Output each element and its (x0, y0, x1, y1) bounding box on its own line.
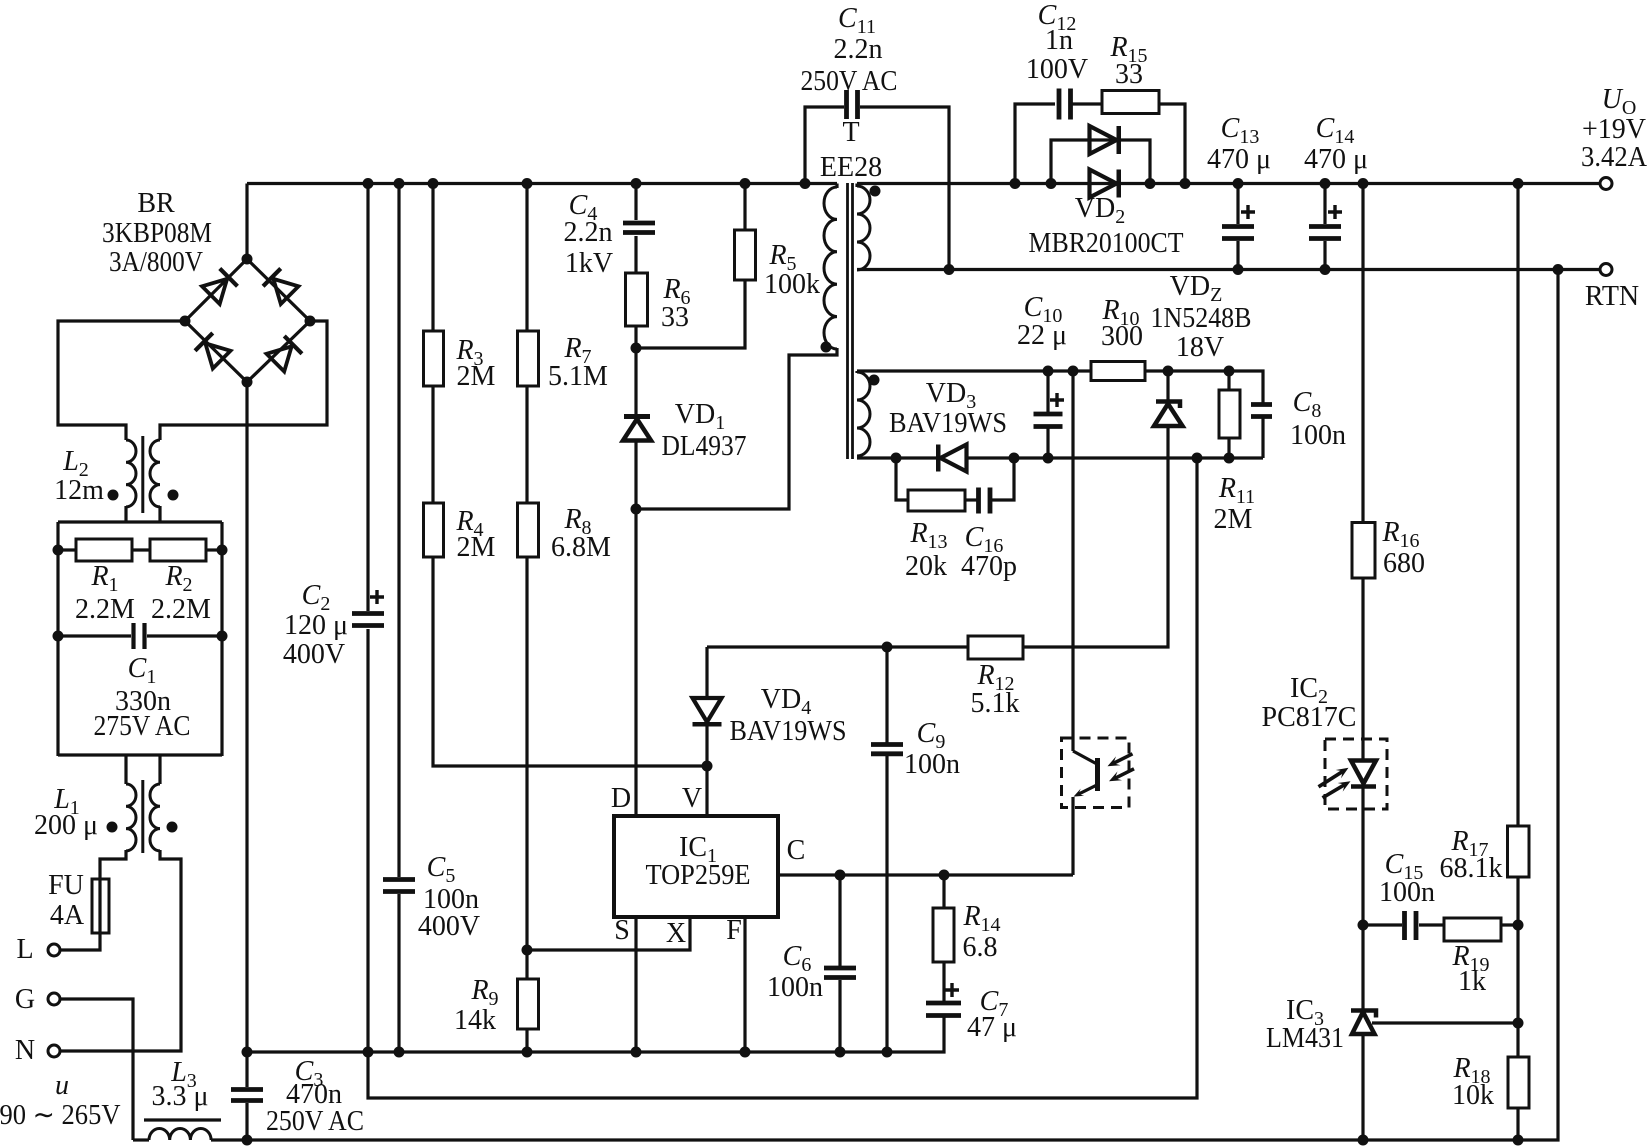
junction bias return link (1192, 453, 1203, 464)
junction ref R18 (1513, 1018, 1524, 1029)
wire C9 bottom wire (885, 755, 888, 1052)
resistor R16 (1352, 523, 1375, 579)
wire opto collector wire (1071, 371, 1074, 751)
T secondary phase dot (870, 186, 881, 197)
plus sign C7 (945, 983, 959, 997)
svg-text:L: L (16, 934, 33, 965)
wire R13C16 bypass (896, 458, 908, 500)
wire T bias top stub (855, 371, 858, 373)
wire C pin line (778, 873, 1073, 876)
svg-text:470p: 470p (961, 551, 1017, 582)
wire C2 upper wire (366, 184, 369, 612)
svg-text:2.2n: 2.2n (564, 217, 613, 248)
resistor R12 (968, 636, 1023, 659)
wire T bias winding (857, 372, 870, 456)
svg-text:275V AC: 275V AC (94, 711, 191, 742)
wire earth rail left (133, 1138, 149, 1141)
terminal RTN output (1600, 264, 1612, 276)
capacitor C6 100n (824, 968, 856, 978)
svg-text:100n: 100n (904, 749, 960, 780)
wire C3 top stub (245, 1052, 248, 1087)
svg-text:3.42A: 3.42A (1581, 142, 1648, 173)
bridge right node (305, 316, 316, 327)
junction return F pin (740, 1047, 751, 1058)
svg-text:18V: 18V (1176, 332, 1224, 363)
svg-text:12m: 12m (54, 475, 104, 506)
wire C13 bottom wire (1236, 241, 1239, 270)
wire earth rail right (211, 270, 1558, 1141)
wire EMI box top (58, 520, 222, 523)
junction out rail C14 (1320, 178, 1331, 189)
wire T core left bar (846, 183, 849, 459)
wire bridge minus down (245, 382, 248, 1052)
junction feedback R19 (1513, 920, 1524, 931)
wire C4-R6 link (634, 236, 637, 273)
wire C11 right wire (860, 107, 949, 270)
wire G terminal wire (60, 999, 133, 1140)
svg-text:EE28: EE28 (820, 152, 882, 183)
wire C10 top wire (1046, 371, 1049, 413)
bridge top node (242, 254, 253, 265)
wire opto emitter wire (1071, 797, 1074, 875)
wire zener top wire (1166, 371, 1169, 402)
L1 left phase dot (107, 822, 118, 833)
resistor R8 (518, 503, 539, 557)
svg-text:3KBP08M: 3KBP08M (102, 218, 212, 249)
transformer T EE28 (821, 183, 881, 459)
wire LM431 ref wire (1372, 1021, 1518, 1024)
junction top rail C4 (631, 178, 642, 189)
capacitor C12 1n (1059, 89, 1071, 120)
wire R5 top wire (743, 184, 746, 231)
wire bias bottom rail right (966, 456, 1263, 459)
wire C6 top wire (838, 875, 841, 966)
junction bias rail opto (1068, 366, 1079, 377)
capacitor C15 100n (1405, 911, 1417, 940)
junction out rail VD2 left (1046, 178, 1057, 189)
wire C12R15 branch left (1015, 104, 1055, 184)
junction C pin R14 (939, 870, 950, 881)
wire R7-R8 link (525, 386, 528, 503)
wire VD4 top wire (705, 647, 708, 699)
junction bias return R11 (1224, 453, 1235, 464)
junction feedback C15 (1358, 920, 1369, 931)
resistor R9 (518, 979, 539, 1029)
svg-text:100k: 100k (764, 269, 820, 300)
bridge rectifier BR 3KBP08M (180, 254, 316, 388)
resistor R14 (933, 908, 954, 962)
wire EMI box bottom (58, 753, 222, 756)
wire C12-R15 link (1071, 102, 1102, 105)
optocoupler IC2 LED (1319, 739, 1388, 809)
wire C9 top wire (885, 647, 888, 743)
svg-text:14k: 14k (454, 1005, 496, 1036)
junction top rail R3 (428, 178, 439, 189)
wire C4 top wire (634, 184, 637, 221)
svg-text:+19V: +19V (1582, 114, 1646, 145)
plus sign C2 (370, 590, 384, 604)
wire R13-C16 link (965, 498, 977, 501)
wire R4 to V-pin sense (433, 557, 707, 766)
wire R2 row wire (206, 548, 222, 551)
junction snubber node (631, 343, 642, 354)
svg-text:1N5248B: 1N5248B (1151, 303, 1252, 334)
wire C2 lower wire (366, 629, 369, 1052)
svg-text:33: 33 (1115, 59, 1143, 90)
zener diode VDZ 1N5248B (1154, 402, 1183, 427)
diode VD4 (693, 698, 722, 724)
svg-text:22 μ: 22 μ (1017, 320, 1067, 351)
wire output +19V rail (857, 182, 1600, 185)
svg-text:2M: 2M (457, 532, 496, 563)
svg-text:2M: 2M (1214, 504, 1253, 535)
wire C14 bottom wire (1323, 241, 1326, 270)
wire T secondary winding (857, 186, 870, 270)
svg-text:470 μ: 470 μ (1207, 144, 1271, 175)
svg-text:6.8M: 6.8M (551, 532, 611, 563)
wire RTN rail (857, 268, 1600, 271)
wire C3 bottom stub (245, 1103, 248, 1140)
junction out rail R15 right (1180, 178, 1191, 189)
junction out rail C13 (1233, 178, 1244, 189)
svg-text:T: T (842, 117, 859, 148)
svg-text:250V AC: 250V AC (266, 1106, 364, 1137)
wire L1 core bar (141, 780, 144, 853)
wire T secondary top stub (855, 184, 858, 188)
wire C5 upper wire (397, 184, 400, 878)
T bias phase dot (869, 375, 880, 386)
junction bias rail C10 (1043, 366, 1054, 377)
junction R2 right (217, 545, 228, 556)
capacitor C7 47u (926, 1003, 961, 1016)
svg-text:100n: 100n (1290, 420, 1346, 451)
svg-text:300: 300 (1101, 321, 1143, 352)
wire bias bottom rail (857, 456, 937, 459)
svg-text:1k: 1k (1458, 966, 1486, 997)
junction return C5 (394, 1047, 405, 1058)
capacitor C13 470u (1222, 227, 1254, 239)
svg-text:N: N (15, 1035, 35, 1066)
diode BR D2 (R to T) (263, 269, 298, 304)
common-mode choke L2 (108, 436, 179, 513)
wire primary DC+ rail (247, 182, 837, 185)
resistor R13 (908, 490, 965, 511)
svg-text:680: 680 (1383, 548, 1425, 579)
svg-text:F: F (726, 915, 742, 946)
wire C15-R19 link (1419, 923, 1445, 926)
wire R18 bottom wire (1516, 1108, 1519, 1140)
wire return-to-bias link (368, 458, 1197, 1098)
capacitor C16 470p (979, 488, 991, 514)
wire C5 lower wire (397, 894, 400, 1052)
wire L3 core bar (144, 1118, 221, 1121)
svg-text:1kV: 1kV (565, 248, 613, 279)
svg-text:4A: 4A (50, 900, 85, 931)
wire R16 top wire (1361, 184, 1364, 524)
wire L2 left winding (126, 440, 136, 507)
wire C12R15 branch right (1158, 104, 1185, 184)
junction V sense (702, 761, 713, 772)
plus sign C14 (1328, 205, 1342, 219)
junction R9 X pin (522, 945, 533, 956)
wire C11 left wire (805, 107, 844, 184)
terminal L (48, 944, 60, 956)
junction RTN C13 (1233, 264, 1244, 275)
optocoupler IC2 phototransistor (1062, 738, 1135, 808)
zener diode VD1 DL4937 (623, 417, 651, 441)
wire C8 bottom stub (1261, 418, 1264, 458)
svg-text:BAV19WS: BAV19WS (889, 408, 1007, 439)
resistor R17 (1508, 826, 1530, 877)
wire R17 top wire (1516, 184, 1519, 827)
svg-text:BR: BR (137, 188, 175, 219)
svg-text:D: D (611, 783, 631, 814)
svg-text:2.2M: 2.2M (75, 594, 135, 625)
wire C10 bottom wire (1046, 428, 1049, 458)
wire T core right bar (851, 183, 854, 459)
wire bias rail R10 to C8 (1145, 371, 1263, 404)
resistor R5 (735, 230, 756, 280)
svg-text:V: V (682, 783, 702, 814)
resistor R15 (1102, 91, 1159, 114)
junction drain node (631, 504, 642, 515)
svg-text:S: S (614, 915, 630, 946)
wire R5 bottom wire (636, 280, 745, 348)
junction return C6 (835, 1047, 846, 1058)
wire L1 left bottom to fuse (60, 850, 126, 950)
wire R1-R2 link (132, 548, 150, 551)
shunt regulator IC3 LM431 (1351, 1011, 1376, 1035)
wire bridge AC left to L2 (58, 321, 185, 440)
capacitor C9 100n (871, 745, 903, 754)
wire L1 right winding (150, 784, 160, 851)
svg-text:2.2M: 2.2M (151, 594, 211, 625)
wire bias top rail (857, 369, 1091, 372)
svg-text:MBR20100CT: MBR20100CT (1029, 228, 1184, 259)
L2 left phase dot (108, 490, 119, 501)
junction return C3 (242, 1047, 253, 1058)
terminal G (48, 993, 60, 1005)
junction C1 left (53, 631, 64, 642)
wire snubber node to VD1 (634, 348, 637, 416)
svg-text:47 μ: 47 μ (967, 1012, 1017, 1043)
wire R14 top wire (942, 875, 945, 908)
junction RTN C11 (944, 264, 955, 275)
wire C15 left wire (1363, 923, 1402, 926)
svg-text:400V: 400V (283, 639, 345, 670)
svg-text:68.1k: 68.1k (1440, 853, 1503, 884)
junction earth C3 (242, 1135, 253, 1146)
svg-text:C: C (787, 835, 806, 866)
wire T primary winding (824, 187, 837, 349)
wire L2 left stub (124, 506, 127, 523)
junction out rail C12 left (1010, 178, 1021, 189)
svg-text:TOP259E: TOP259E (646, 860, 751, 891)
junction bias return C10 (1043, 453, 1054, 464)
wire L1 right bottom to N (60, 850, 181, 1051)
junction return R9 (522, 1047, 533, 1058)
L2 right phase dot (168, 490, 179, 501)
wire R16 to LED (1361, 578, 1364, 762)
plus sign C13 (1241, 205, 1255, 219)
wire VD1 to drain node (634, 441, 637, 816)
resistor R7 (518, 331, 539, 386)
junction top rail C5 (394, 178, 405, 189)
wire R7 top wire (525, 184, 528, 332)
diode BR D4 (B to R) (267, 336, 302, 371)
wire bridge diamond (185, 259, 310, 382)
diode BR D3 (B to L) (195, 333, 230, 368)
junction top rail R5 (740, 178, 751, 189)
junction top rail C11 (800, 178, 811, 189)
svg-text:X: X (666, 918, 686, 949)
svg-text:1n: 1n (1045, 25, 1073, 56)
wire EMI box right (220, 522, 223, 756)
wire R3-R4 link (431, 386, 434, 503)
resistor R4 (424, 503, 444, 557)
svg-text:LM431: LM431 (1266, 1023, 1344, 1054)
junction C pin C6 (835, 870, 846, 881)
svg-text:RTN: RTN (1585, 281, 1639, 312)
wire EMI box left (56, 522, 59, 756)
wire R8 to R9 (525, 557, 528, 979)
svg-text:DL4937: DL4937 (662, 431, 747, 462)
wire C14 top wire (1323, 184, 1326, 225)
junction bias rail zener (1163, 366, 1174, 377)
wire R9 bottom wire (525, 1029, 528, 1052)
inductor L3 (144, 1120, 221, 1140)
plus sign C10 (1050, 393, 1064, 407)
wire VD2 bypass branch (1051, 140, 1150, 184)
capacitor C1 330n X-cap (134, 623, 145, 649)
junction top rail C2 (363, 178, 374, 189)
wire C16 right wire (991, 458, 1014, 500)
wire R6 bottom wire (634, 326, 637, 348)
wire L2 right stub (158, 506, 161, 523)
wire R14-C7 link (942, 962, 945, 1001)
terminal N (48, 1045, 60, 1057)
junction C1 right (217, 631, 228, 642)
svg-text:200 μ: 200 μ (34, 810, 98, 841)
wire R17-R18 mid (1516, 877, 1519, 1057)
wire primary return rail (247, 1017, 944, 1052)
svg-text:2.2n: 2.2n (834, 34, 883, 65)
junction return C2 (363, 1047, 374, 1058)
controller IC1 TOP259E (614, 816, 778, 917)
diode BR D1 (L to T) (202, 269, 237, 304)
wire L1 right stub (158, 755, 161, 784)
wire VD4 to V pin (705, 723, 708, 816)
wire L1 left stub (124, 755, 127, 784)
svg-text:250V AC: 250V AC (801, 66, 898, 97)
resistor R18 (1508, 1057, 1529, 1108)
wire drain node to primary (636, 348, 837, 509)
capacitor C8 100n (1251, 405, 1272, 417)
terminal +19V output (1600, 178, 1612, 190)
svg-text:G: G (15, 984, 35, 1015)
fuse FU 4A (92, 879, 109, 933)
junction out rail R17 (1513, 178, 1524, 189)
junction out rail R16 (1358, 178, 1369, 189)
svg-text:400V: 400V (418, 911, 480, 942)
common-mode choke L1 (107, 780, 178, 853)
capacitor C2 120u bulk (352, 614, 384, 626)
wire L2 core bar (141, 436, 144, 513)
L1 right phase dot (167, 822, 178, 833)
bridge bottom node (242, 377, 253, 388)
wire bridge top feed (245, 184, 248, 260)
diode VD2a (1090, 126, 1119, 154)
wire R11 bottom wire (1227, 438, 1230, 458)
wire LED to C15 node (1361, 787, 1364, 1010)
wire R19 right wire (1500, 923, 1518, 926)
wire C1 right wire (147, 634, 222, 637)
svg-text:5.1k: 5.1k (971, 688, 1020, 719)
resistor R3 (424, 331, 444, 386)
wire X pin link (527, 918, 690, 950)
wire F pin wire (743, 918, 746, 1052)
junction return C9 (882, 1047, 893, 1058)
capacitor C3 470n Y-cap (231, 1090, 263, 1101)
resistor R1 (76, 539, 132, 561)
junction bias return VD3 (891, 453, 902, 464)
capacitor C11 2.2n Y-cap (847, 90, 858, 119)
svg-text:100n: 100n (1379, 877, 1435, 908)
resistor R10 (1091, 362, 1145, 381)
svg-text:470 μ: 470 μ (1304, 144, 1368, 175)
resistor R19 (1444, 918, 1501, 941)
svg-text:FU: FU (48, 870, 84, 901)
svg-text:6.8: 6.8 (963, 932, 998, 963)
svg-text:5.1M: 5.1M (548, 361, 608, 392)
svg-text:20k: 20k (905, 551, 947, 582)
capacitor C10 22u (1034, 414, 1063, 427)
wire bridge AC right to L2 (160, 321, 327, 440)
junction earth R18 (1513, 1135, 1524, 1146)
wire L1 left winding (126, 784, 136, 851)
resistor R11 (1219, 390, 1240, 438)
capacitor C5 100n (383, 880, 415, 892)
wire bias feed line (707, 645, 968, 648)
wire T primary top stub (835, 184, 838, 189)
wire S pin wire (634, 918, 637, 1052)
wire C1 left wire (58, 634, 131, 637)
resistor R2 (150, 539, 206, 561)
svg-text:100V: 100V (1026, 54, 1088, 85)
junction return S pin (631, 1047, 642, 1058)
diode VD3 (938, 445, 966, 472)
wire R1 row wires (58, 548, 76, 551)
bridge left node (180, 316, 191, 327)
diode VD2b (1090, 170, 1119, 198)
svg-text:100n: 100n (767, 972, 823, 1003)
junction out rail VD2 right (1145, 178, 1156, 189)
wire R11 top wire (1227, 371, 1230, 390)
junction RTN right (1553, 264, 1564, 275)
wire C13 top wire (1236, 184, 1239, 225)
junction C9 top (882, 642, 893, 653)
capacitor C4 2.2n (623, 223, 655, 233)
junction R1 left (53, 545, 64, 556)
junction earth LM431 (1358, 1135, 1369, 1146)
wire L3 winding (149, 1129, 211, 1141)
wire L2 right winding (150, 440, 160, 507)
junction top rail R7 (522, 178, 533, 189)
svg-text:33: 33 (661, 302, 689, 333)
svg-text:3A/800V: 3A/800V (109, 247, 203, 278)
svg-text:120 μ: 120 μ (284, 610, 348, 641)
svg-text:PC817C: PC817C (1262, 702, 1357, 733)
